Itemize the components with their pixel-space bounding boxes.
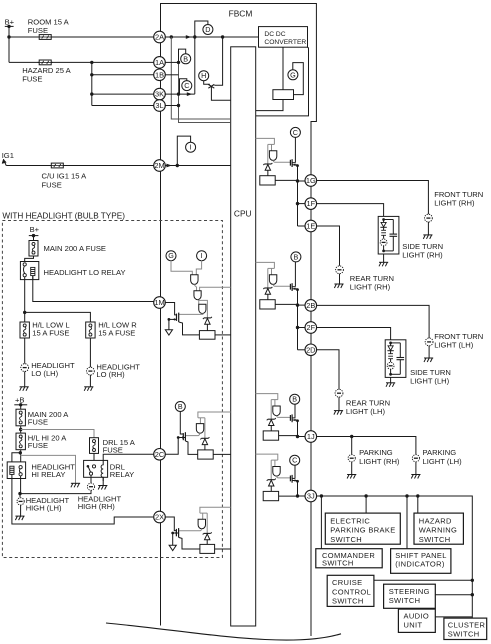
wire MAIN fuse to LO relay contact [25,256,34,263]
svg-text:15 A FUSE: 15 A FUSE [98,329,135,338]
resistor of 1M block to CPU [215,334,231,336]
svg-text:AUDIO: AUDIO [404,611,430,620]
svg-text:B: B [294,252,299,261]
svg-text:WITH HEADLIGHT (BULB TYPE): WITH HEADLIGHT (BULB TYPE) [2,211,125,220]
ground parking RH [347,475,356,479]
svg-text:2D: 2D [306,345,315,354]
ground arrow of 2X block [169,545,176,550]
bulb REAR TURN LIGHT (LH) [335,389,343,397]
output rail to pins 1G 1F 1E [297,166,299,226]
node H [199,71,209,81]
wire from CPU into gate 2 [200,287,231,291]
MOSFET driver [289,415,291,421]
AND-gate dome [269,275,276,285]
svg-text:1F: 1F [306,199,315,208]
wire STEERING SWITCH to bus [435,594,472,596]
sense resistor of 2X block [200,544,215,553]
sense resistor [260,176,275,185]
wire +B to MAIN fuse 2 [20,405,22,409]
pin 2D [305,344,317,356]
svg-text:2X: 2X [155,513,164,522]
gate1 output into gate2 [194,284,196,290]
wire pin 1F to side turn RH [316,204,384,217]
wire DRL fuse to DRL relay contact [93,453,95,464]
MOSFET driver [289,160,291,166]
wire resistor bottom to CPU [256,100,283,111]
wire bulb LO LH to ground [24,372,26,387]
svg-text:ELECTRIC: ELECTRIC [330,516,370,525]
wire HI relay contact to junction [20,476,22,494]
bulb PARKING LIGHT (LH) [412,455,419,462]
svg-text:FUSE: FUSE [28,418,48,427]
svg-text:LIGHT (RH): LIGHT (RH) [402,251,443,260]
wires G and I into AND gate 1 [171,260,192,274]
svg-text:WARNING: WARNING [419,526,457,535]
dashed box WITH HEADLIGHT (BULB TYPE) [2,221,222,558]
svg-text:2A: 2A [155,33,164,42]
bulb FRONT TURN LIGHT (LH) [425,338,433,346]
wire DRL contact to HIGH RH bulb [90,475,92,483]
MOSFET of 2C block [182,433,184,440]
resistor output wire [279,435,298,437]
transistor H emitter-base cross [204,80,210,84]
ground parking LH [411,475,420,479]
zener of 1M block [203,317,212,324]
AND gate 1 of 1M block [191,275,198,285]
node B [181,54,191,64]
torn-edge wave line [106,623,341,640]
wire pin 1G to front turn RH [316,181,428,215]
wire to headlight LO RH bulb [89,338,91,367]
svg-text:1J: 1J [307,432,315,441]
branch bus at x=91.8 [91,62,93,105]
wire B+ to pin 2A [9,36,154,38]
svg-text:2M: 2M [154,161,164,170]
svg-text:IG1: IG1 [2,151,14,160]
wire HIGH LH bulb to ground [20,505,22,516]
fuse H/L LOW L 15 A [20,322,29,338]
svg-text:LIGHT (RH): LIGHT (RH) [350,283,391,292]
wire to headlight LO LH bulb [24,338,26,364]
bulb HEADLIGHT LO (LH) [21,364,29,372]
output to pin 1J [297,421,299,437]
HI relay contact [19,466,22,476]
wire pin 2A to DC-DC converter [165,36,259,38]
zener of 2X block [203,532,212,539]
arrow on 2A wire [186,35,191,39]
LO relay coil [31,267,35,275]
node C [182,81,192,91]
fuse C/U IG1 15 A [50,163,65,168]
DRL RELAY box [84,460,108,477]
svg-text:HIGH (LH): HIGH (LH) [26,504,62,513]
resistor output wire [279,495,298,497]
ground arrow of 1M block [165,330,172,335]
arrow on 2M wire [166,164,171,168]
wire node C to MOSFET drain [294,137,296,163]
svg-text:DC DC: DC DC [264,31,285,38]
gate output to MOSFET body of 2X block [179,529,202,531]
wire LO relay contact output [24,277,26,322]
bulb HEADLIGHT HIGH (RH) [87,483,94,490]
wire to pin 1A [9,61,154,63]
svg-text:FUSE: FUSE [28,26,48,35]
wire HI relay coil bottom to pin 2X [12,474,153,524]
resistor to CPU of 2X block [215,548,231,550]
wire to HAZARD WARNING SWITCH [417,496,419,513]
svg-text:3L: 3L [155,101,163,110]
svg-text:HAZARD 25 A: HAZARD 25 A [22,66,71,75]
svg-text:G: G [168,251,174,260]
pin 3L [154,100,166,112]
wire pin 2F to side turn LH [316,328,391,340]
MOSFET driver [289,476,291,482]
zener diode [263,287,272,294]
bulb HEADLIGHT HIGH (LH) [17,498,24,505]
MOSFET source lead to ground arrow [169,318,177,320]
wire pin 2B to front turn LH [316,305,429,338]
ELECTRIC PARKING BRAKE SWITCH box [325,513,400,544]
gate wire dome to MOSFET [277,416,291,418]
svg-text:HI RELAY: HI RELAY [31,470,65,479]
driver block feed from CPU [256,394,278,400]
wire node B to MOSFET drain [294,262,296,287]
fuse H/L LOW R 15 A [86,322,95,338]
fuse ROOM 15 A [38,35,53,40]
MOSFET source lead of 2C block [178,437,185,439]
resistor in DC-DC output [273,90,294,100]
svg-text:HIGH (RH): HIGH (RH) [78,502,116,511]
svg-text:LIGHT (LH): LIGHT (LH) [423,457,463,466]
wire node B to MOSFET gate [180,411,183,434]
CRUISE CONTROL SWITCH box [327,575,374,606]
svg-text:LO (LH): LO (LH) [31,369,58,378]
sense resistor [260,300,275,309]
wire to pin 3K [92,93,154,95]
svg-text:LIGHT (LH): LIGHT (LH) [434,341,474,350]
output rail to pins 2B 2F 2D [297,290,299,350]
svg-text:CRUISE: CRUISE [332,578,362,587]
AND gate of 2C block [196,424,203,434]
pin 1G [305,175,317,187]
wire parking RH to ground [351,462,353,475]
resistor to CPU of 2C block [213,453,231,455]
node I [186,142,196,152]
MOSFET driver [289,284,291,290]
svg-text:ROOM 15 A: ROOM 15 A [28,17,70,26]
svg-text:MAIN 200 A FUSE: MAIN 200 A FUSE [44,244,106,253]
pin 1A [154,57,166,69]
wire pin 2X to MOSFET gate [165,517,177,531]
wire DRL coil to pin 2C [103,454,154,460]
wire rear turn LH to ground [338,397,340,411]
wire to COMMANDER SWITCH [320,496,322,549]
svg-text:SWITCH: SWITCH [330,535,362,544]
MOSFET of 1M block [176,314,178,321]
resistor output wire [275,303,297,305]
gate3 output wire to MOSFET drain [179,313,203,316]
node B of 2C block [175,402,185,412]
driver block feed from CPU [256,262,275,268]
gate wire dome to MOSFET [273,160,290,162]
wire from 2A junction down to transistor H collector [214,37,222,85]
riser from 3K wire up to 2A wire [194,37,196,94]
svg-text:I: I [190,143,192,152]
side turn LH internals [389,342,392,345]
feed wire CPU to 2X block [200,507,231,513]
zener of 2C block [200,437,209,444]
wire resistor to node G hook [293,63,304,95]
pin 3J [305,490,317,502]
feed wire CPU to 2C block [198,412,231,418]
svg-text:SWITCH: SWITCH [332,597,364,606]
wire B+ to MAIN fuse [33,236,35,241]
HEADLIGHT LO RELAY box [20,262,38,280]
wire node C to MOSFET drain [294,465,296,479]
wire MAIN to H/L HI fuse [20,426,22,433]
wire node B to MOSFET drain [294,404,296,418]
wire DRL branch to DRL fuse [21,430,94,438]
gate wire dome to MOSFET [273,284,290,286]
branch to zener of 1M block [199,300,208,318]
ground front turn RH [423,235,432,239]
ground under LO LH [20,387,29,391]
svg-text:2B: 2B [306,301,315,310]
node G [288,70,298,80]
DRL relay contact [87,465,96,475]
svg-text:STEERING: STEERING [389,587,430,596]
sense resistor of 1M block [199,331,215,340]
svg-text:1G: 1G [306,176,316,185]
svg-text:SWITCH: SWITCH [448,630,480,639]
output to pin 3J [297,481,299,496]
wire pin 2D to rear turn LH [316,350,339,390]
LO relay contact [23,263,26,277]
sense resistor [263,431,278,440]
svg-text:1B: 1B [155,70,164,79]
AND gate of 2X block [198,519,205,529]
branch to H/L LOW R fuse [25,312,91,322]
svg-text:3J: 3J [307,492,315,501]
pin 1F [305,198,317,210]
AUDIO UNIT box [398,609,435,632]
hook to node I [177,136,190,165]
wire to SHIFT PANEL [406,496,408,549]
svg-text:3K: 3K [155,90,164,99]
ground under DRL coil [102,477,104,485]
svg-text:B: B [178,402,183,411]
DC DC CONVERTER box [259,27,308,48]
svg-text:CLUSTER: CLUSTER [448,620,486,629]
driver block feed from CPU [256,454,278,460]
wire front turn RH to ground [427,222,429,235]
ground side turn LH [386,383,395,387]
svg-text:LIGHT (LH): LIGHT (LH) [346,407,386,416]
gate output to MOSFET body [185,433,200,435]
wire DC-DC corner down to CPU [256,47,309,116]
node G input of 1M block [166,251,176,261]
HEADLIGHT HI RELAY box [7,462,25,479]
svg-text:C: C [184,81,189,90]
pin 2M [154,160,166,172]
HAZARD WARNING SWITCH box [414,513,463,544]
wire CRUISE CONTROL to bus [374,579,472,581]
MOSFET source lead of 2X block [173,532,179,534]
wire rear turn RH to ground [339,274,341,284]
wire pin 3J to switch bus [316,496,472,618]
svg-text:PARKING: PARKING [359,448,393,457]
svg-text:FUSE: FUSE [22,75,42,84]
CLUSTER SWITCH box [444,618,487,639]
FBCM module box outline [161,4,317,637]
wire junction to HEADLIGHT HIGH LH bulb [19,494,21,498]
fuse MAIN 200 A [29,241,38,257]
wire to pin 1B [92,74,154,76]
svg-text:B: B [183,54,188,63]
wire pin 1E to rear turn RH [316,226,339,266]
MOSFET of 2X block [175,529,177,536]
wire side turn RH to ground [383,254,385,262]
AND gate 2 of 1M block [194,291,201,300]
svg-text:I: I [201,251,203,260]
wire AUDIO UNIT to bus [435,616,472,618]
sense resistor of 2C block [198,450,214,459]
pin 2X [154,511,166,523]
bulb HEADLIGHT LO (RH) [87,367,95,375]
svg-text:FUSE: FUSE [28,441,48,450]
wire LO relay coil to pin 1M [33,276,154,302]
svg-text:SWITCH: SWITCH [419,535,451,544]
bulb REAR TURN LIGHT (RH) [336,266,344,274]
wire to ELECTRIC PARKING BRAKE SWITCH [365,496,367,513]
bulb FRONT TURN LIGHT (RH) [425,214,433,222]
zener diode [263,163,272,170]
wire parking LH to ground [415,462,417,475]
gate2 output into gate3 [198,300,199,305]
wire transistor H to CPU [211,87,230,100]
node B beside driver 3 [290,394,300,404]
fuse MAIN 200 A (high) [16,409,25,426]
svg-text:15 A FUSE: 15 A FUSE [32,329,69,338]
svg-text:C: C [292,456,297,465]
MOSFET body bottom to resistor [179,322,200,335]
SIDE TURN LIGHT (RH) box [378,216,399,254]
svg-text:1A: 1A [155,58,164,67]
wire pin 1A into bus [165,61,179,63]
gray link from HI fuse node to ground near DRL relay [21,455,76,483]
svg-text:FUSE: FUSE [42,180,62,189]
svg-text:SWITCH: SWITCH [389,596,421,605]
DRL relay coil loops [101,460,103,481]
bus from 2A junction down to CPU [171,37,230,119]
fuse HAZARD 25 A [38,60,53,65]
wire front turn LH to ground [428,346,430,358]
pin 2F [305,322,317,334]
ground rear turn LH [334,411,343,415]
pin 1J [305,431,317,443]
hook to node B [179,49,186,62]
svg-text:UNIT: UNIT [404,621,423,630]
wire pin 3L into bus [165,105,179,107]
svg-text:1M: 1M [154,298,164,307]
wire B+ down to 1A wire [8,26,10,62]
AND-gate dome [269,151,276,161]
svg-text:C/U IG1 15 A: C/U IG1 15 A [42,172,88,181]
svg-text:2F: 2F [306,323,315,332]
SHIFT PANEL (INDICATOR) box [391,549,451,574]
ground side turn RH [379,262,388,266]
svg-text:LIGHT (LH): LIGHT (LH) [410,377,450,386]
ground rear turn RH [334,284,343,288]
HI relay coil [10,466,14,474]
svg-text:(INDICATOR): (INDICATOR) [395,560,445,569]
fuse DRL 15 A [90,438,99,454]
driver block feed from CPU [256,138,275,144]
AND-gate dome [273,467,280,477]
svg-text:2C: 2C [155,450,165,459]
hook to node D [195,21,208,37]
svg-text:LIGHT (RH): LIGHT (RH) [434,199,475,208]
pin 2B [305,300,317,312]
hook to node C [180,79,187,94]
wire pin 3K with arrow to riser [165,93,195,95]
wire IG1 to pin 2M [6,165,154,167]
bulb PARKING LIGHT (RH) [348,455,355,462]
MOSFET body bottom to resistor of 2X block [179,537,200,549]
svg-text:PARKING BRAKE: PARKING BRAKE [330,526,395,535]
wire pin 1M to MOSFET gate [165,303,177,315]
node I input of 1M block [197,251,207,261]
svg-text:PARKING: PARKING [423,448,457,457]
MOSFET body bottom to resistor of 2C block [185,441,197,454]
wire HI fuse to HI relay [20,450,22,466]
wire to parking RH bulb [351,437,353,455]
wire side turn LH to ground [390,377,392,382]
node D [203,25,213,35]
wire DC-DC bottom to resistor [282,47,284,89]
svg-text:B: B [292,395,297,404]
ground under HIGH LH [15,516,24,520]
ground of gray link [71,483,80,487]
node C above driver 1 [290,127,300,137]
svg-text:G: G [290,70,296,79]
wire pin 1B into bus [165,74,179,76]
svg-text:HAZARD: HAZARD [419,516,452,525]
svg-text:1E: 1E [306,222,315,231]
svg-text:FUSE: FUSE [103,446,123,455]
wire to pin 3L [92,105,154,107]
pin 1E [305,220,317,232]
wire pin 1J to parking lights [316,437,416,455]
AND-gate dome [273,406,280,416]
wire bulb LO RH to ground [89,375,91,387]
ground front turn LH [424,358,433,362]
CPU box [231,47,256,626]
wire pin 2C to MOSFET source [165,438,178,455]
svg-text:LIGHT (RH): LIGHT (RH) [359,457,400,466]
svg-text:H: H [201,71,206,80]
svg-text:D: D [205,25,210,34]
ground under LO RH [84,387,93,391]
branch junction to HIGH RH bulb return [20,490,91,493]
STEERING SWITCH box [384,584,436,608]
svg-text:B+: B+ [30,225,40,234]
fuse H/L HI 20 A [16,433,25,450]
svg-text:CONVERTER: CONVERTER [264,39,306,46]
AND gate 3 of 1M block [199,304,206,313]
pin 1M [154,297,166,309]
resistor output wire [275,179,297,181]
